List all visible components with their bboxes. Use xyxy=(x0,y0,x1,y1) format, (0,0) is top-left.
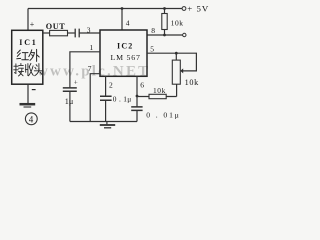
wire IC1 minus lead xyxy=(27,84,29,103)
node junction pin6 xyxy=(136,95,139,98)
svg-text:LM 567: LM 567 xyxy=(111,53,141,62)
wire R2 to C1 xyxy=(68,32,75,34)
wire pin5 xyxy=(147,53,196,71)
label IC1 chinese jie xyxy=(14,63,24,76)
ground symbol mid xyxy=(106,122,108,125)
node junction pot top xyxy=(175,52,178,55)
potentiometer RP 10k leads xyxy=(175,53,177,60)
circled 4 xyxy=(25,113,37,125)
wire C2 bottom to rail xyxy=(69,91,71,121)
capacitor C2 1u plates xyxy=(63,88,77,91)
svg-text:2: 2 xyxy=(109,81,113,90)
wire C4 bottom to rail xyxy=(136,110,138,121)
node pin8 terminal xyxy=(183,33,186,36)
resistor R2 body xyxy=(50,30,68,35)
svg-text:6: 6 xyxy=(140,81,144,90)
svg-text:1: 1 xyxy=(90,43,94,52)
label IC1 minus xyxy=(32,89,36,91)
svg-text:0 . 01μ: 0 . 01μ xyxy=(146,110,180,119)
svg-text:3: 3 xyxy=(87,25,91,34)
svg-text:5: 5 xyxy=(150,45,154,54)
potentiometer RP body xyxy=(172,60,180,84)
wire pin4 drop xyxy=(121,9,123,31)
node junction pin4 on rail xyxy=(121,7,124,10)
label IC1 chinese shou xyxy=(25,63,33,75)
wire C1 to pin3 xyxy=(79,32,100,34)
label IC1 chinese tou xyxy=(34,64,42,76)
wire pin7 xyxy=(90,74,100,122)
wire OUT from IC1 xyxy=(43,32,50,34)
svg-text:+ 5V: + 5V xyxy=(187,4,209,14)
svg-text:IC2: IC2 xyxy=(117,42,134,51)
label IC1 chinese hong xyxy=(17,50,29,60)
resistor R1 10k vertical leads xyxy=(164,9,166,36)
wire R3 right up to pot bottom xyxy=(176,84,178,96)
svg-text:7: 7 xyxy=(88,64,92,73)
node junction R1 top on rail xyxy=(163,7,166,10)
wire top supply rail xyxy=(28,8,182,10)
ground symbol IC1 xyxy=(20,103,36,106)
svg-text:10k: 10k xyxy=(185,78,200,87)
svg-text:www.plc.NET: www.plc.NET xyxy=(37,64,150,80)
svg-text:4: 4 xyxy=(29,115,34,125)
svg-text:10k: 10k xyxy=(171,18,184,27)
svg-text:10k: 10k xyxy=(153,86,166,95)
label IC1 chinese wai xyxy=(29,49,39,61)
capacitor C4 0.01u lead top xyxy=(136,96,138,106)
wire pin1 xyxy=(70,52,100,88)
wire pin2 xyxy=(105,76,107,96)
potentiometer RP wiper arrow xyxy=(180,68,183,73)
svg-text:+: + xyxy=(74,78,78,86)
IC2 box xyxy=(100,30,147,76)
IC1 box xyxy=(12,30,43,84)
resistor R3 10k leads xyxy=(137,96,177,98)
svg-text:OUT: OUT xyxy=(46,22,66,31)
capacitor C3 0.1u plates xyxy=(100,96,112,100)
resistor R1 10k body xyxy=(162,14,167,30)
svg-text:4: 4 xyxy=(126,19,130,28)
wire C3 bottom to rail xyxy=(105,100,107,121)
wire IC1 plus lead xyxy=(27,9,29,31)
wire bottom rail xyxy=(70,121,137,123)
svg-text:1μ: 1μ xyxy=(65,97,74,106)
wire pin6 xyxy=(136,76,138,96)
svg-text:0 . 1μ: 0 . 1μ xyxy=(113,95,132,104)
node +5V terminal xyxy=(182,7,186,11)
svg-text:IC1: IC1 xyxy=(19,38,37,47)
resistor R3 10k body xyxy=(149,94,166,98)
wire pin8 to terminal xyxy=(147,34,183,36)
capacitor C1 plates xyxy=(75,29,79,38)
svg-text:+: + xyxy=(30,20,35,29)
svg-text:8: 8 xyxy=(151,26,155,35)
node junction R1 bottom on pin8 wire xyxy=(163,34,166,37)
capacitor C4 plates xyxy=(131,107,142,111)
